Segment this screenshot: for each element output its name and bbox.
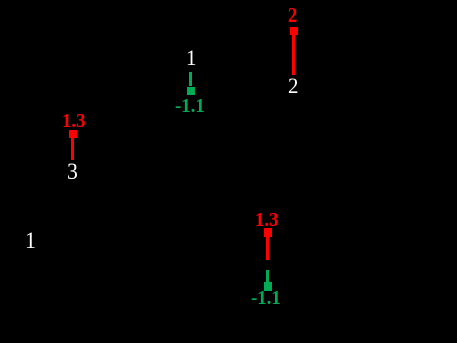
atom label "2" (white): [288, 75, 299, 97]
stem (green): [189, 72, 192, 86]
stem (red): [71, 138, 74, 160]
atom label "1" (white, lower left, no stem): [25, 229, 37, 252]
value label "-1.1" (green): [175, 96, 207, 116]
value label "2" (red): [288, 5, 299, 26]
square head (red): [69, 130, 77, 138]
value label "1.3" (red): [255, 210, 280, 230]
square head (green): [264, 282, 273, 291]
value label "1.3" (red): [62, 111, 87, 131]
square head (green): [187, 87, 195, 95]
value label "-1.1" (green): [251, 288, 283, 308]
stem (red): [266, 237, 269, 260]
atom label "1" (white): [186, 47, 197, 69]
square head (red): [264, 228, 272, 237]
stem (green): [266, 270, 269, 282]
atom label "3" (white): [67, 160, 79, 183]
square head (red): [290, 27, 298, 35]
stem (red): [292, 35, 295, 76]
